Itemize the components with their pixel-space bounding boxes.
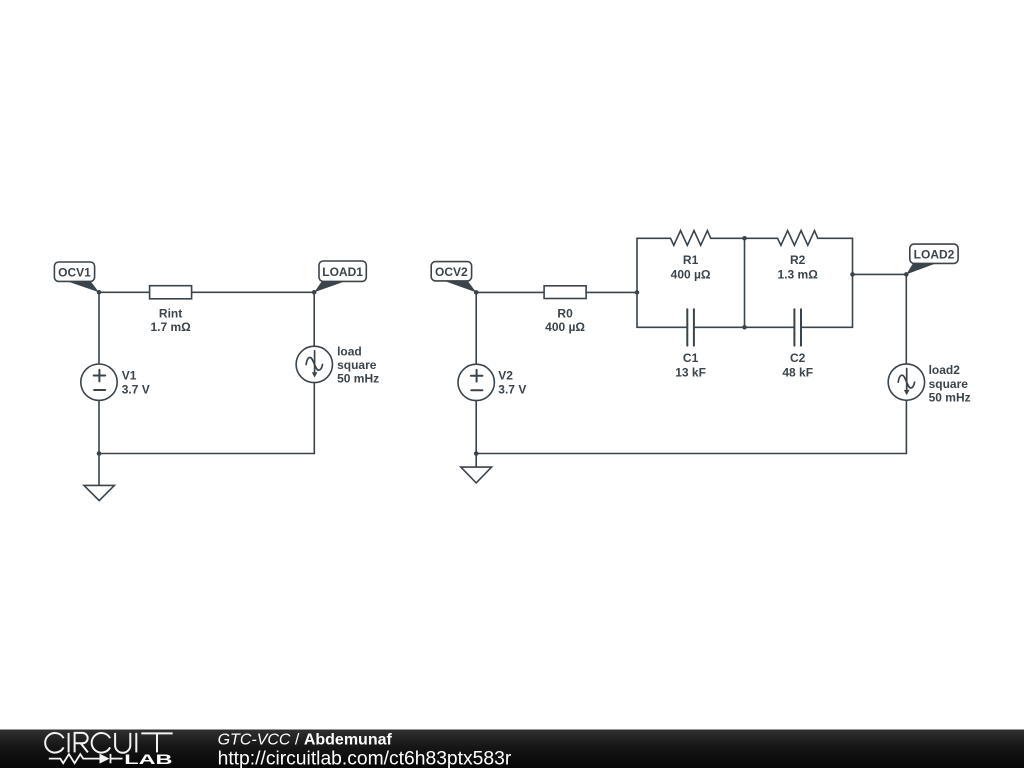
wire right edge of RC network [852,238,854,327]
svg-text:LOAD1: LOAD1 [322,265,363,279]
svg-text:OCV2: OCV2 [435,265,468,279]
capacitor C2 [782,309,813,379]
wire [475,292,477,364]
wire [98,400,100,453]
wire [99,291,150,293]
flag OCV2 [431,262,476,293]
node network middle top [742,236,747,241]
wire [99,453,314,455]
wire left edge of RC network [636,238,638,327]
ground 1 [84,454,114,501]
wire [313,383,315,454]
current source load2 [888,363,970,404]
wire [694,326,745,328]
C [92,733,110,753]
svg-text:square: square [929,377,969,391]
R [75,733,88,753]
svg-text:C2: C2 [790,351,806,365]
footer bar [0,730,1024,768]
wire [711,237,745,239]
svg-text:50 mHz: 50 mHz [929,390,971,404]
wire [745,326,795,328]
wire [586,291,637,293]
svg-text:OCV1: OCV1 [58,265,91,279]
svg-text:1.3 mΩ: 1.3 mΩ [778,267,819,281]
node network right [850,272,855,277]
node ground junction 1 [97,451,102,456]
svg-text:LAB: LAB [124,751,172,767]
logo resistor + diode line [49,754,123,763]
wire [818,237,853,239]
resistor R2 [778,231,819,282]
wire [637,237,671,239]
svg-text:load: load [337,344,362,358]
I [68,733,70,753]
node network left [635,290,640,295]
svg-text:R2: R2 [790,253,806,267]
wire [192,291,315,293]
ground 2 [461,454,492,483]
node OCV1 [97,290,102,295]
node network middle bottom [742,325,747,330]
wire [98,292,100,364]
U [115,733,130,753]
wire [476,291,544,293]
svg-text:1.7 mΩ: 1.7 mΩ [150,320,191,334]
svg-text:load2: load2 [929,363,961,377]
current source load [296,344,379,385]
flag OCV1 [54,262,99,292]
svg-text:13 kF: 13 kF [675,365,706,379]
wire [853,273,907,275]
I [135,733,137,753]
wire [313,292,315,346]
svg-text:square: square [337,358,377,372]
svg-text:3.7 V: 3.7 V [122,382,150,396]
resistor Rint [150,286,192,334]
T [141,733,172,752]
svg-text:Rint: Rint [159,306,182,320]
svg-text:R0: R0 [557,306,573,320]
svg-text:3.7 V: 3.7 V [498,383,526,397]
wire [637,326,687,328]
svg-text:GTC-VCC / Abdemunaf: GTC-VCC / Abdemunaf [218,732,393,749]
wire [801,326,853,328]
C [45,733,63,753]
resistor R1 [671,231,711,282]
wire [905,274,907,364]
node ground junction 2 [474,451,479,456]
svg-text:R1: R1 [683,253,699,267]
svg-text:50 mHz: 50 mHz [337,371,379,385]
voltage source V1 [81,364,150,400]
node LOAD1 [312,290,317,295]
wire [475,401,477,454]
resistor R0 [544,286,586,334]
logo CIRCUIT LAB [45,733,173,767]
flag LOAD2 [906,244,958,274]
node OCV2 [474,290,479,295]
svg-text:LOAD2: LOAD2 [914,247,955,261]
voltage source V2 [458,364,526,400]
footer title text [218,732,512,768]
node LOAD2 [904,272,909,277]
svg-text:V2: V2 [498,369,513,383]
svg-text:48 kF: 48 kF [782,365,813,379]
svg-text:C1: C1 [683,351,699,365]
svg-text:http://circuitlab.com/ct6h83pt: http://circuitlab.com/ct6h83ptx583r [218,748,512,768]
svg-text:400 µΩ: 400 µΩ [671,267,711,281]
wire [745,237,778,239]
svg-text:V1: V1 [122,368,137,382]
capacitor C1 [675,309,706,379]
svg-text:400 µΩ: 400 µΩ [545,320,585,334]
flag LOAD1 [314,261,366,292]
wire [476,453,906,455]
wire [905,400,907,453]
wire middle edge of RC network [744,238,746,327]
